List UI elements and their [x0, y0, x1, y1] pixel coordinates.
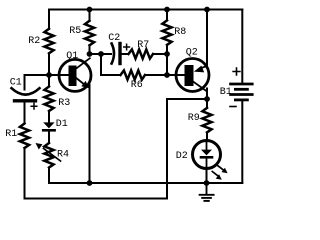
svg-text:C2: C2 [108, 33, 120, 44]
wire node A to C1 [25, 75, 50, 90]
resistor R8 [162, 20, 171, 44]
wire Q2 emitter lead [206, 10, 208, 67]
wire C1 to R1 [24, 102, 26, 123]
junction dot R7-R8 node [164, 51, 170, 57]
svg-text:R5: R5 [69, 26, 81, 37]
svg-text:R3: R3 [58, 98, 70, 109]
capacitor C2 curved plate [112, 44, 114, 64]
wire R8 top lead [166, 10, 168, 21]
junction dot top rail R8 [164, 7, 170, 13]
LED D2 [193, 141, 221, 169]
C1 plus sign [31, 103, 37, 109]
B1 plus sign [233, 68, 240, 75]
wire emitter rail [49, 168, 242, 184]
resistor R4 (variable) [44, 143, 53, 168]
wire R3 top lead [48, 75, 50, 87]
wire top rail V+ [49, 10, 242, 29]
wire R7 to R8 node [153, 53, 167, 55]
wire R9 top lead [206, 99, 208, 108]
svg-text:R9: R9 [188, 113, 200, 124]
C2 plus sign [124, 44, 130, 50]
wire Q2 collector lead [206, 89, 208, 100]
capacitor C1 curved plate [12, 88, 40, 94]
R4 wiper arrow [36, 143, 61, 161]
svg-text:R7: R7 [137, 40, 149, 51]
LED D2 light arrow 1 [217, 165, 227, 173]
LED D2 light arrow 2 [212, 172, 222, 180]
wire R1 to bottom rail [25, 148, 168, 199]
svg-text:D2: D2 [176, 151, 188, 162]
transistor Q1 [59, 58, 91, 91]
wire down to R6 [101, 54, 121, 75]
svg-text:R6: R6 [131, 80, 143, 91]
svg-text:Q2: Q2 [186, 48, 198, 59]
resistor R3 [44, 87, 53, 111]
junction dot R6 takeoff [98, 51, 104, 57]
wire R3 to D1 [48, 111, 50, 123]
ground [200, 183, 214, 201]
resistor R1 [20, 124, 29, 149]
resistor R6 [121, 70, 146, 79]
svg-text:D1: D1 [56, 119, 68, 130]
wire base node to Q2 [167, 74, 185, 76]
resistor R7 [129, 49, 154, 58]
wire R9 to D2 [206, 132, 208, 141]
svg-text:Q1: Q1 [66, 51, 78, 62]
transistor Q2 [176, 59, 209, 92]
junction dot Q2 collector node [204, 96, 210, 102]
junction dot top rail Q2 [204, 7, 210, 13]
wire R2 to node A [48, 53, 50, 75]
wire R5 top lead [89, 10, 91, 21]
wire collector node to C2 [90, 53, 112, 55]
junction dot ground node [204, 180, 210, 186]
battery B1 [231, 84, 253, 100]
junction dot Q1 collector node [87, 51, 93, 57]
resistor R2 [44, 29, 53, 53]
resistor R5 [85, 21, 94, 45]
svg-text:R8: R8 [174, 27, 186, 38]
wire Q1 emitter down to rail [89, 85, 91, 183]
diode D1 [43, 122, 54, 130]
svg-text:R2: R2 [28, 36, 40, 47]
wire node A to Q1 base [49, 74, 69, 76]
svg-text:B1: B1 [220, 87, 232, 98]
svg-text:C1: C1 [10, 77, 22, 88]
wire D1 to R4 [48, 132, 50, 144]
wire R5 bottom to collector node [89, 45, 91, 54]
wire feedback Q2 collector to bottom rail [167, 99, 207, 199]
wire D2 to ground rail [206, 168, 208, 183]
wire battery negative lead [241, 101, 243, 183]
capacitor C1 flat plate [15, 99, 36, 102]
wire R6 to Q2 base node [145, 74, 167, 76]
wire C2 to R7 [122, 53, 129, 55]
node A junction dot [46, 72, 52, 78]
resistor R9 [202, 108, 211, 133]
B1 minus sign [230, 106, 236, 108]
svg-text:R4: R4 [57, 149, 69, 160]
junction dot Q2 base node [164, 72, 170, 78]
svg-text:R1: R1 [5, 129, 17, 140]
wire R8 node down to base node [166, 45, 168, 75]
capacitor C2 flat plate [118, 44, 121, 64]
junction dot top rail R5 [87, 7, 93, 13]
junction dot Q1 emitter on rail [87, 180, 93, 186]
wire battery positive lead [241, 10, 243, 83]
